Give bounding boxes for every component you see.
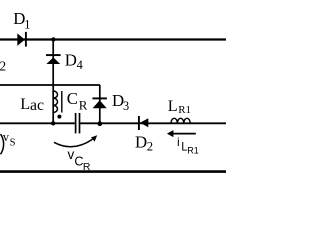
svg-text:L: L — [20, 95, 30, 113]
svg-text:L: L — [168, 97, 178, 115]
svg-text:ac: ac — [30, 97, 44, 114]
svg-text:2: 2 — [0, 59, 6, 74]
svg-text:2: 2 — [147, 140, 153, 154]
svg-text:R: R — [83, 162, 91, 173]
svg-text:R1: R1 — [178, 104, 191, 116]
svg-text:1: 1 — [24, 17, 30, 31]
svg-text:R1: R1 — [187, 146, 199, 156]
svg-text:R: R — [79, 97, 88, 112]
svg-text:4: 4 — [77, 58, 83, 72]
svg-text:D: D — [135, 132, 147, 151]
svg-text:i: i — [177, 135, 180, 149]
svg-text:D: D — [65, 50, 77, 69]
svg-text:3: 3 — [123, 99, 129, 113]
svg-text:S: S — [10, 138, 16, 149]
svg-text:C: C — [67, 89, 78, 108]
